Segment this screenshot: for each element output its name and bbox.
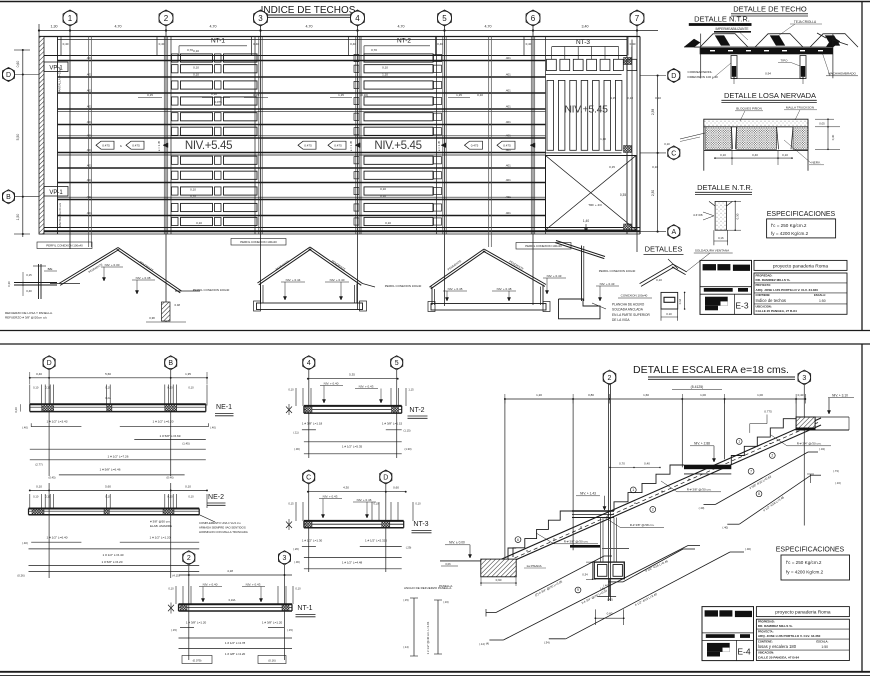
svg-text:PERFIL CONEXION 160x40: PERFIL CONEXION 160x40 (385, 284, 422, 288)
svg-text:.401: .401 (505, 211, 511, 215)
svg-text:5,60: 5,60 (105, 372, 111, 376)
svg-text:0,40: 0,40 (752, 153, 758, 157)
svg-text:.401: .401 (86, 211, 92, 215)
svg-text:(0.26): (0.26) (17, 574, 24, 578)
svg-text:PROYECTA:: PROYECTA: (756, 283, 772, 287)
svg-text:(.15): (.15) (287, 628, 293, 632)
svg-text:1 # 3/8" L=1.18: 1 # 3/8" L=1.18 (302, 422, 323, 426)
svg-text:1 # 1/2" L=3.43: 1 # 1/2" L=3.43 (47, 420, 68, 424)
svg-text:B/E: B/E (48, 267, 53, 271)
svg-text:NIV. + 2.88: NIV. + 2.88 (694, 442, 710, 446)
svg-text:(.11): (.11) (293, 431, 298, 435)
svg-text:MALLA TRUCKSON: MALLA TRUCKSON (786, 106, 814, 110)
svg-text:NIV. + 3.10: NIV. + 3.10 (832, 394, 848, 398)
svg-text:(.40): (.40) (22, 541, 28, 545)
svg-text:7: 7 (750, 470, 752, 474)
svg-text:1 # 3/8" L=1.20: 1 # 3/8" L=1.20 (186, 621, 207, 625)
svg-text:4,70: 4,70 (210, 25, 217, 29)
svg-text:A: A (671, 229, 676, 236)
svg-text:ARQ. JOSE LUIS PORTILLO V. C: ARQ. JOSE LUIS PORTILLO V. CLV. 34.360 (756, 288, 819, 292)
svg-text:.401: .401 (86, 195, 92, 199)
svg-text:1,00: 1,00 (757, 393, 763, 397)
svg-text:(.40): (.40) (603, 583, 609, 587)
svg-text:R-# 3/4" @/30 cm.: R-# 3/4" @/30 cm. (797, 442, 822, 446)
svg-text:1 # 1/2" L=4.78: 1 # 1/2" L=4.78 (225, 641, 246, 645)
svg-text:0,10: 0,10 (627, 96, 633, 100)
svg-text:CORREA PERFIL: CORREA PERFIL (688, 70, 713, 74)
svg-text:0,10: 0,10 (193, 49, 199, 53)
svg-text:CONTIENE:: CONTIENE: (758, 639, 773, 643)
svg-text:REFUERZO DE LOSA Y PANELLA.: REFUERZO DE LOSA Y PANELLA. (5, 311, 53, 315)
svg-text:.401: .401 (505, 134, 511, 138)
svg-text:0,40: 0,40 (437, 42, 443, 46)
svg-text:4,70: 4,70 (485, 25, 492, 29)
svg-text:DETALLE ESCALERA e=18 cms.: DETALLE ESCALERA e=18 cms. (633, 364, 789, 376)
svg-text:0,10: 0,10 (380, 194, 386, 198)
svg-text:0,15: 0,15 (288, 502, 294, 506)
svg-text:NIV.+5.45: NIV.+5.45 (564, 104, 608, 116)
svg-text:NIV.+5.45: NIV.+5.45 (374, 140, 421, 152)
svg-text:0,20: 0,20 (14, 407, 18, 413)
svg-text:PANELLA.: PANELLA. (439, 584, 453, 588)
svg-text:(4.15): (4.15) (172, 574, 179, 578)
svg-text:UBICACION:: UBICACION: (758, 651, 774, 655)
svg-text:0,10: 0,10 (382, 66, 388, 70)
svg-text:D: D (6, 72, 11, 79)
svg-text:.401: .401 (86, 73, 92, 77)
svg-text:SOLDADURA VENTANA: SOLDADURA VENTANA (695, 249, 730, 253)
svg-text:PROPIEDAD:: PROPIEDAD: (758, 620, 775, 624)
svg-text:0,40: 0,40 (159, 42, 165, 46)
svg-text:1,20: 1,20 (536, 393, 542, 397)
svg-text:0,10: 0,10 (782, 153, 788, 157)
svg-text:1 # 1/2" L=1.30: 1 # 1/2" L=1.30 (302, 539, 323, 543)
svg-text:0,10: 0,10 (380, 187, 386, 191)
svg-text:0,40: 0,40 (253, 42, 259, 46)
svg-text:NT-2: NT-2 (409, 407, 424, 414)
svg-text:0.475: 0.475 (132, 144, 140, 148)
svg-text:(0.079): (0.079) (193, 659, 202, 663)
svg-text:.401: .401 (505, 195, 511, 199)
svg-text:0,10: 0,10 (385, 221, 391, 225)
svg-text:ESPECIFICACIONES: ESPECIFICACIONES (767, 211, 836, 218)
svg-text:4,70: 4,70 (398, 25, 405, 29)
svg-text:DIMENSION 100 x 40: DIMENSION 100 x 40 (688, 75, 719, 79)
svg-text:0,40: 0,40 (26, 289, 32, 293)
svg-text:0,10: 0,10 (105, 495, 111, 499)
svg-text:0,35: 0,35 (620, 193, 626, 197)
svg-text:(.16): (.16) (443, 600, 448, 604)
svg-text:SOLDADA ANCLADA: SOLDADA ANCLADA (612, 308, 644, 312)
svg-text:.401: .401 (505, 164, 511, 168)
svg-text:ELAB. AMARRE: ELAB. AMARRE (150, 524, 172, 528)
svg-text:0,40: 0,40 (63, 42, 69, 46)
svg-text:R-# 3/8" @/30 cm.: R-# 3/8" @/30 cm. (687, 488, 712, 492)
svg-text:2: 2 (164, 14, 169, 23)
svg-text:5,35: 5,35 (349, 373, 355, 377)
svg-text:1,60: 1,60 (643, 393, 649, 397)
svg-text:5,60: 5,60 (105, 485, 111, 489)
svg-text:(.14): (.14) (403, 645, 408, 649)
svg-text:CALLE 20 PANGEA, #7 B-84: CALLE 20 PANGEA, #7 B-84 (756, 309, 797, 313)
svg-text:(.73): (.73) (833, 469, 839, 473)
svg-text:6: 6 (517, 538, 519, 542)
svg-text:0,10: 0,10 (373, 502, 379, 506)
svg-text:0.48: 0.48 (175, 303, 181, 307)
svg-text:0,05: 0,05 (819, 122, 825, 126)
svg-text:1 # 1/2" L=2.325: 1 # 1/2" L=2.325 (365, 539, 387, 543)
svg-text:5: 5 (395, 360, 399, 367)
svg-text:1 # 3/8" L=1.20: 1 # 3/8" L=1.20 (262, 621, 283, 625)
svg-text:.401: .401 (505, 148, 511, 152)
svg-text:1,15: 1,15 (338, 93, 344, 97)
svg-text:2: 2 (187, 555, 191, 562)
svg-text:0,94: 0,94 (765, 72, 771, 76)
svg-text:HORMIGON CON MALLA TRUNCADA: HORMIGON CON MALLA TRUNCADA (199, 530, 248, 534)
svg-text:DETALLE N.T.R.: DETALLE N.T.R. (694, 15, 750, 24)
svg-text:1,00: 1,00 (700, 393, 706, 397)
svg-text:.401: .401 (505, 73, 511, 77)
svg-text:DETALLE DE TECHO: DETALLE DE TECHO (733, 5, 807, 14)
svg-text:.401: .401 (86, 148, 92, 152)
svg-text:1 # 5/8" L=6.20: 1 # 5/8" L=6.20 (102, 560, 123, 564)
svg-text:R-# 3/8" @/38 cm.: R-# 3/8" @/38 cm. (630, 523, 655, 527)
svg-text:NT-2: NT-2 (397, 38, 411, 45)
svg-text:TEJA CRIOLLA: TEJA CRIOLLA (794, 20, 817, 24)
svg-text:0.475: 0.475 (503, 144, 511, 148)
svg-text:NIV. + 0.38: NIV. + 0.38 (136, 276, 151, 280)
svg-text:3,40: 3,40 (582, 25, 589, 29)
svg-text:proyecto panaderia Roma: proyecto panaderia Roma (773, 263, 829, 269)
svg-text:3: 3 (258, 14, 263, 23)
svg-text:0,15: 0,15 (609, 165, 615, 169)
svg-text:(.15): (.15) (403, 598, 408, 602)
svg-text:1 # 1/2" L=4.48: 1 # 1/2" L=4.48 (342, 561, 363, 565)
svg-text:0,10: 0,10 (211, 92, 217, 96)
svg-text:0,30: 0,30 (7, 281, 11, 287)
svg-text:1 # 1/2" L=6.40: 1 # 1/2" L=6.40 (47, 536, 68, 540)
svg-text:1 # 1/2" L=1.20: 1 # 1/2" L=1.20 (150, 536, 171, 540)
svg-text:.401: .401 (505, 120, 511, 124)
svg-text:2: 2 (652, 508, 654, 512)
svg-text:# 3/8" @50 cm.: # 3/8" @50 cm. (150, 520, 171, 524)
svg-text:0.475: 0.475 (334, 144, 342, 148)
svg-text:DETALLES: DETALLES (645, 245, 683, 254)
svg-text:NIV. + 0.43: NIV. + 0.43 (323, 495, 338, 499)
svg-text:0.10: 0.10 (666, 312, 672, 316)
svg-text:REFUERZO # 3/8" @/20cm c/u: REFUERZO # 3/8" @/20cm c/u (5, 316, 47, 320)
svg-text:1 # 5/8" L=6.69: 1 # 5/8" L=6.69 (160, 434, 181, 438)
svg-text:0,10: 0,10 (196, 221, 202, 225)
svg-text:0,10: 0,10 (33, 495, 39, 499)
svg-text:NT-3: NT-3 (576, 39, 590, 46)
svg-text:(0.16): (0.16) (268, 659, 275, 663)
svg-text:0,40: 0,40 (36, 372, 42, 376)
svg-text:EN LA PARTE SUPERIOR: EN LA PARTE SUPERIOR (612, 313, 650, 317)
svg-text:1,10: 1,10 (382, 73, 388, 77)
svg-text:DETALLE N.T.R.: DETALLE N.T.R. (697, 183, 753, 192)
svg-text:NIV. + 1.43: NIV. + 1.43 (580, 492, 596, 496)
svg-text:.401: .401 (86, 178, 92, 182)
svg-text:8: 8 (758, 492, 760, 496)
svg-text:0,10: 0,10 (190, 195, 196, 199)
svg-text:1 # 4/8" L=4.20: 1 # 4/8" L=4.20 (225, 652, 246, 656)
svg-text:DETALLE LOSA NERVADA: DETALLE LOSA NERVADA (724, 91, 816, 100)
svg-text:(.40): (.40) (22, 426, 28, 430)
svg-text:BLOQUES PIÑON: BLOQUES PIÑON (736, 106, 762, 111)
svg-text:1,30: 1,30 (51, 25, 58, 29)
svg-text:(.15): (.15) (171, 628, 177, 632)
svg-text:.401: .401 (86, 89, 92, 93)
svg-text:e = 1.45: e = 1.45 (349, 140, 353, 151)
svg-text:0,10: 0,10 (185, 485, 191, 489)
svg-text:1,50: 1,50 (16, 214, 20, 221)
svg-text:0,15: 0,15 (253, 93, 259, 97)
svg-text:(.34): (.34) (819, 447, 825, 451)
svg-text:0,40: 0,40 (644, 462, 650, 466)
svg-text:D: D (383, 475, 388, 482)
svg-text:0,2A: 0,2A (105, 396, 111, 400)
svg-text:PERFIL CONEXION 100x40: PERFIL CONEXION 100x40 (525, 244, 562, 248)
svg-text:0,10: 0,10 (167, 495, 173, 499)
svg-text:NT-1: NT-1 (297, 605, 312, 612)
svg-text:0,40: 0,40 (798, 393, 804, 397)
svg-text:1 # 1/2" L=6.20: 1 # 1/2" L=6.20 (153, 420, 174, 424)
svg-text:PANTALLA e=15cm: PANTALLA e=15cm (58, 66, 62, 93)
svg-text:f'c = 250 Kg/cm.2: f'c = 250 Kg/cm.2 (786, 560, 822, 565)
svg-text:0.475: 0.475 (304, 144, 312, 148)
svg-text:5,50: 5,50 (16, 134, 20, 141)
svg-text:IMPERMEABILIZANTE: IMPERMEABILIZANTE (715, 27, 748, 31)
svg-text:4 # 3/8: 4 # 3/8 (693, 213, 703, 217)
svg-text:NIV. ± 0.00: NIV. ± 0.00 (449, 541, 465, 545)
svg-text:0,70: 0,70 (371, 48, 377, 52)
svg-text:0,60: 0,60 (393, 486, 399, 490)
svg-text:MACHIHEMBRADO: MACHIHEMBRADO (828, 72, 856, 76)
svg-text:6: 6 (531, 14, 536, 23)
svg-text:NIV. + 0.43: NIV. + 0.43 (547, 274, 562, 278)
svg-text:.401: .401 (86, 105, 92, 109)
svg-text:0,06: 0,06 (445, 562, 451, 566)
svg-text:R-# 3/8" @/30 cm.: R-# 3/8" @/30 cm. (564, 540, 589, 544)
svg-text:NT-1: NT-1 (211, 38, 225, 45)
svg-text:(.40): (.40) (722, 526, 728, 530)
svg-text:1 # 1/2" @/40 cm. L=1.84: 1 # 1/2" @/40 cm. L=1.84 (426, 621, 430, 654)
svg-text:(5.4125): (5.4125) (691, 385, 704, 389)
svg-text:(.30): (.30) (294, 560, 300, 564)
svg-text:fy = 4200 Kg/cm.2: fy = 4200 Kg/cm.2 (771, 231, 809, 236)
svg-text:fy = 4200 Kg/cm.2: fy = 4200 Kg/cm.2 (786, 570, 824, 575)
svg-text:(.40): (.40) (607, 598, 613, 602)
svg-text:PROPIEDAD:: PROPIEDAD: (756, 273, 773, 277)
svg-text:0.475: 0.475 (471, 144, 479, 148)
svg-text:NIV. + 0.40: NIV. + 0.40 (330, 278, 345, 282)
svg-text:0,70: 0,70 (619, 462, 625, 466)
svg-text:CONTIENE:: CONTIENE: (756, 293, 771, 297)
svg-text:DR. RAMIREZ MILLS %.: DR. RAMIREZ MILLS %. (758, 624, 793, 628)
svg-text:e = 1.45: e = 1.45 (437, 140, 441, 151)
svg-text:D: D (671, 73, 676, 80)
svg-text:(.26): (.26) (293, 547, 299, 551)
svg-text:0,10: 0,10 (656, 278, 662, 282)
svg-text:C: C (306, 475, 311, 482)
svg-text:4,18: 4,18 (227, 569, 233, 573)
svg-text:0,90: 0,90 (496, 578, 502, 582)
svg-text:(.34): (.34) (544, 640, 550, 644)
svg-text:1: 1 (738, 440, 740, 444)
svg-text:(0.45): (0.45) (48, 476, 55, 480)
svg-text:5: 5 (442, 14, 447, 23)
svg-text:UBICACION:: UBICACION: (756, 304, 772, 308)
svg-text:0,10: 0,10 (193, 66, 199, 70)
svg-text:1: 1 (68, 14, 73, 23)
svg-text:1 # 1/2" L=7.26: 1 # 1/2" L=7.26 (108, 454, 129, 458)
svg-text:1,10: 1,10 (600, 137, 606, 141)
svg-text:0,30: 0,30 (831, 134, 835, 140)
svg-text:(4): (4) (486, 642, 489, 646)
svg-text:TRF + 4/3: TRF + 4/3 (588, 203, 602, 207)
svg-text:(.14): (.14) (479, 642, 485, 646)
svg-text:DR. RAMIREZ MILLS %.: DR. RAMIREZ MILLS %. (756, 278, 791, 282)
svg-text:NIV. + 0.46: NIV. + 0.46 (357, 498, 372, 502)
svg-text:1:50: 1:50 (821, 645, 828, 649)
svg-text:Indice de techos: Indice de techos (756, 298, 787, 303)
svg-text:0.775: 0.775 (764, 410, 772, 414)
svg-text:NIV. + 0.48: NIV. + 0.48 (497, 287, 512, 291)
svg-text:NIV.+5.45: NIV.+5.45 (185, 140, 232, 152)
svg-text:1,15: 1,15 (408, 388, 414, 392)
svg-text:PANTALLA e=C.um: PANTALLA e=C.um (58, 202, 62, 227)
svg-text:0,10: 0,10 (477, 93, 483, 97)
svg-text:proyecto panaderia Roma: proyecto panaderia Roma (775, 610, 831, 616)
svg-text:4: 4 (355, 14, 360, 23)
svg-text:0,34: 0,34 (582, 573, 588, 577)
svg-text:(.16): (.16) (835, 481, 841, 485)
svg-text:0,40: 0,40 (526, 42, 532, 46)
svg-text:3: 3 (283, 555, 287, 562)
svg-text:1a PISADA: 1a PISADA (526, 564, 541, 568)
svg-text:(0.46): (0.46) (166, 476, 173, 480)
svg-text:0,40: 0,40 (630, 42, 636, 46)
svg-text:NIV. + 0.44: NIV. + 0.44 (286, 278, 301, 282)
svg-text:COMPLEMENTO UNA 1"x1/2 c/u: COMPLEMENTO UNA 1"x1/2 c/u (199, 521, 241, 525)
svg-text:.401: .401 (86, 120, 92, 124)
svg-text:2,30: 2,30 (651, 190, 655, 196)
svg-text:NIV. + 0.43: NIV. + 0.43 (359, 385, 374, 389)
svg-text:.401: .401 (86, 164, 92, 168)
svg-text:3: 3 (802, 375, 806, 382)
svg-text:(1.45): (1.45) (182, 442, 189, 446)
svg-text:E-4: E-4 (737, 647, 751, 657)
svg-text:B: B (6, 194, 11, 201)
svg-text:CALLE 20 PANGEA, #7 B-84: CALLE 20 PANGEA, #7 B-84 (758, 655, 799, 659)
svg-text:NT-3: NT-3 (413, 521, 428, 528)
svg-text:ARQ. JOSE LUIS PORTILLO V. C: ARQ. JOSE LUIS PORTILLO V. CLV. 34.360 (758, 634, 821, 638)
svg-text:(.40): (.40) (210, 426, 216, 430)
svg-text:PERFIL CONEXION 100x40: PERFIL CONEXION 100x40 (193, 288, 230, 292)
svg-text:0,15: 0,15 (45, 495, 51, 499)
svg-text:NIV. + 0.40: NIV. + 0.40 (203, 583, 218, 587)
svg-text:DE LA VIGA: DE LA VIGA (612, 318, 630, 322)
svg-text:1,15: 1,15 (456, 93, 462, 97)
svg-text:0,10: 0,10 (664, 142, 670, 146)
svg-text:.401: .401 (505, 56, 511, 60)
svg-text:7: 7 (635, 14, 640, 23)
svg-text:.401: .401 (505, 105, 511, 109)
svg-text:0,15: 0,15 (45, 386, 51, 390)
svg-text:2: 2 (608, 375, 612, 382)
svg-text:0,10: 0,10 (33, 386, 39, 390)
svg-text:0,10: 0,10 (190, 188, 196, 192)
svg-text:0.075: 0.075 (214, 100, 222, 104)
svg-text:PLANCHA DE ACERO: PLANCHA DE ACERO (612, 303, 645, 307)
svg-text:(2.77): (2.77) (35, 463, 42, 467)
svg-text:C: C (671, 150, 676, 157)
svg-text:4: 4 (307, 360, 311, 367)
svg-text:0,30: 0,30 (736, 213, 740, 219)
svg-text:ESCALA:: ESCALA: (814, 293, 826, 297)
svg-text:e = 1.45: e = 1.45 (157, 140, 161, 151)
svg-text:.401: .401 (505, 89, 511, 93)
svg-text:ARMADA SIEMPRE VAO SENTIDOS: ARMADA SIEMPRE VAO SENTIDOS (199, 526, 246, 530)
svg-text:0,16: 0,16 (718, 236, 724, 240)
svg-text:0,10: 0,10 (288, 388, 294, 392)
svg-text:(1.30): (1.30) (404, 447, 411, 451)
svg-text:4,70: 4,70 (306, 25, 313, 29)
svg-text:1,35: 1,35 (185, 372, 191, 376)
svg-text:.401: .401 (86, 134, 92, 138)
svg-text:(1.15): (1.15) (403, 429, 410, 433)
svg-text:B: B (168, 360, 173, 367)
svg-text:4,70: 4,70 (115, 25, 122, 29)
svg-text:1 # 5/8" L=6.46: 1 # 5/8" L=6.46 (100, 468, 121, 472)
svg-text:f'c = 250 Kg/cm.2: f'c = 250 Kg/cm.2 (771, 223, 807, 228)
svg-text:PERFIL CONEXION 100x40: PERFIL CONEXION 100x40 (46, 244, 83, 248)
svg-text:CONEXION 100x40: CONEXION 100x40 (621, 294, 648, 298)
svg-text:NE-1: NE-1 (216, 404, 232, 411)
svg-text:0,10: 0,10 (167, 386, 173, 390)
svg-text:1 # 1/2" L=6.40: 1 # 1/2" L=6.40 (103, 553, 124, 557)
svg-text:0,10: 0,10 (193, 73, 199, 77)
svg-text:0.475: 0.475 (102, 144, 110, 148)
svg-text:D: D (47, 360, 52, 367)
svg-text:0,40: 0,40 (350, 42, 356, 46)
svg-text:(.29): (.29) (406, 546, 412, 550)
svg-text:(.46): (.46) (745, 547, 751, 551)
svg-text:PERFIL CONEXION 100x40: PERFIL CONEXION 100x40 (240, 240, 277, 244)
svg-text:4,30: 4,30 (343, 486, 349, 490)
svg-text:E-3: E-3 (735, 300, 749, 310)
svg-text:9: 9 (577, 588, 579, 592)
svg-text:0.16: 0.16 (678, 298, 682, 304)
svg-text:0,10: 0,10 (188, 495, 194, 499)
svg-text:0,38: 0,38 (149, 316, 155, 320)
svg-text:1:50: 1:50 (819, 299, 826, 303)
svg-text:PERFIL CONEXION 100x40: PERFIL CONEXION 100x40 (599, 269, 636, 273)
svg-text:4,15: 4,15 (610, 96, 616, 100)
svg-text:1: 1 (632, 488, 634, 492)
svg-text:0,80: 0,80 (588, 393, 594, 397)
svg-text:2,38: 2,38 (651, 109, 655, 115)
svg-text:0,10: 0,10 (295, 587, 301, 591)
svg-text:(0,10): (0,10) (360, 93, 368, 97)
svg-text:losas y escalera 180: losas y escalera 180 (758, 644, 797, 649)
svg-text:NIV. + 0.43: NIV. + 0.43 (246, 583, 261, 587)
svg-text:1 # 3/8" L=1.15: 1 # 3/8" L=1.15 (382, 422, 403, 426)
svg-text:1 # 1/2" L=5.35: 1 # 1/2" L=5.35 (342, 445, 363, 449)
svg-text:0,10A: 0,10A (229, 598, 236, 602)
svg-text:NERV.: NERV. (811, 161, 820, 165)
